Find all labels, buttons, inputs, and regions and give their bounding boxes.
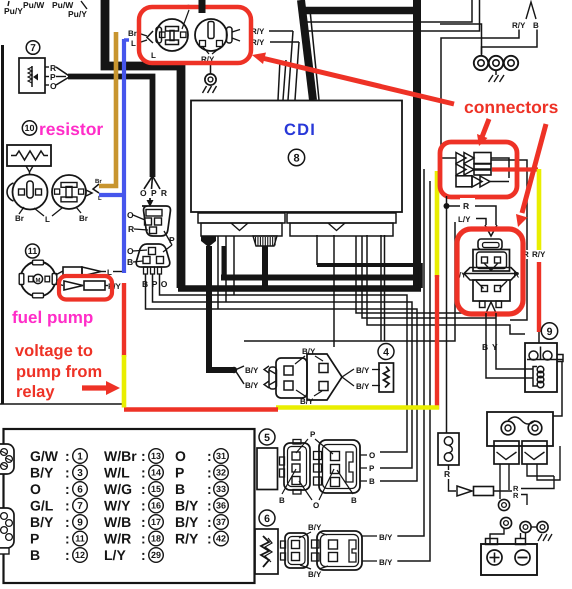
svg-text:B/Y: B/Y [379,558,393,567]
svg-text:O: O [127,246,134,256]
comp5 housing right [319,440,360,493]
ground lead [495,71,497,76]
svg-text:3: 3 [77,468,83,479]
connector lower trapezoid [136,244,170,267]
wire L/Y long [244,222,455,341]
svg-text:36: 36 [216,501,226,511]
fuse element [444,437,452,445]
svg-text:17: 17 [151,517,161,527]
svg-text:Br: Br [128,29,137,38]
svg-text:6: 6 [77,485,83,496]
red diagonal arrow to box A [262,58,454,104]
ground symbol [489,75,494,82]
label P with lead [164,231,172,245]
svg-text:M: M [36,277,41,284]
ground lead [210,63,212,74]
U7 connector fork [56,67,70,85]
wire thin horizontal above pump-relay line [0,403,124,405]
battery terminal left [486,539,498,545]
svg-text:R/Y: R/Y [532,250,546,259]
circled 8 [288,149,304,165]
comp5 mating teeth [314,452,322,460]
svg-text:relay: relay [16,383,55,401]
wire red vertical right [537,262,541,332]
wire CDI pair to LY junction [380,235,382,341]
svg-text::: : [65,547,70,563]
wire yellow vertical pump [122,355,127,408]
svg-text:B/Y: B/Y [175,514,199,530]
battery terminal right [516,539,526,545]
wire L/Y to relay [476,219,486,226]
red diagonal arrow to box C [522,124,546,213]
wire B to rings [482,30,538,56]
label P right [360,467,367,469]
comp6 element box [255,529,278,574]
wire R vertical to fuse [446,196,448,433]
wire thick vertical right of CDI [413,0,421,288]
svg-text::: : [141,531,146,547]
connector upper trapezoid [142,206,170,236]
fork to comp4 [342,369,354,377]
svg-text::: : [65,481,70,497]
fuel pump motor circle [21,262,56,297]
component 6 circled 6 [259,510,275,526]
svg-text:B: B [482,342,488,352]
ground ring terminal [205,74,216,85]
svg-text::: : [141,547,146,563]
svg-text:Pu/Y: Pu/Y [68,9,87,19]
wire thick CDI pin down-left [209,246,235,370]
ground symbol [203,86,207,93]
left page border line [1,45,4,404]
svg-text:Pu/W: Pu/W [23,0,45,10]
svg-text:W/L: W/L [104,465,130,481]
svg-text:O P R: O P R [140,188,168,198]
svg-text:W/R: W/R [104,531,131,547]
component R10 circled 10 [22,121,36,135]
battery box [481,544,537,575]
wire B long to comp5 [146,274,418,481]
coil wires down left [499,464,501,499]
wire ring b down [525,533,527,539]
svg-text:B/Y: B/Y [175,498,199,514]
svg-text:15: 15 [151,484,161,494]
CDI unit U8 box [191,101,402,213]
R10 lead down [26,166,33,172]
svg-text:B: B [351,496,357,505]
svg-text:pump from: pump from [16,363,102,381]
red arrow to wire [82,385,107,390]
wire fork Br L to connector [138,33,147,36]
svg-text:5: 5 [264,432,270,444]
ring terminal 2 [489,56,503,70]
connector circle I-beam [156,19,188,51]
bullet right exits [491,158,509,178]
svg-text::: : [65,514,70,530]
label Br with lead [76,207,81,213]
connector housing right [307,354,342,400]
relay K9 box [525,343,557,392]
svg-text:B/Y: B/Y [302,347,316,356]
wire R continue [510,259,527,320]
ignition coil box [487,412,553,446]
comp5 housing left [284,443,310,490]
wire thick bundle from top to CDI area [105,0,181,288]
svg-text:L/Y: L/Y [104,547,126,563]
relay flange [464,268,517,281]
wire thin top loop b [306,0,480,31]
svg-text:R: R [444,469,450,479]
svg-text:P: P [310,430,316,439]
svg-text::: : [65,448,70,464]
svg-text:9: 9 [547,326,553,338]
svg-text:Br: Br [79,214,88,223]
svg-text::: : [207,481,212,497]
svg-text:R: R [128,224,134,234]
svg-text:R: R [514,271,520,280]
svg-text:fuel pump: fuel pump [12,308,93,327]
CDI left strip pin wires [217,236,219,309]
bullet connector L [63,267,82,276]
coil primary right [522,441,547,464]
tick mark [8,1,9,6]
svg-text::: : [207,465,212,481]
svg-text:/Y: /Y [459,271,466,280]
svg-text::: : [141,481,146,497]
svg-text:O: O [313,501,319,510]
svg-text:B/Y: B/Y [379,533,393,542]
svg-text::: : [65,498,70,514]
comp6 housing left [285,533,308,568]
wire thick junction leads [235,366,244,370]
svg-text:18: 18 [151,534,161,544]
wire thick bus mid [221,275,417,281]
wire ring stub [440,24,482,54]
wire battery to ring [490,529,504,545]
wire R/Y right upper [269,30,293,32]
junction dot R [444,203,450,209]
svg-text:R/Y: R/Y [512,21,526,30]
svg-text:B: B [279,496,285,505]
connector circle right [52,175,86,209]
ring connector b [500,517,511,528]
wire R/Y to rings [441,30,519,159]
bullet row1 [456,153,466,164]
svg-text::: : [65,531,70,547]
svg-text:42: 42 [216,534,226,544]
wire CDI stub to bus [316,235,318,265]
wire red vertical pump [122,283,126,357]
resistor R10 zigzag [11,151,48,160]
svg-text:11: 11 [28,246,38,256]
wire relay9 to coils [553,362,562,417]
wire comp6 lower from bullets [398,181,430,561]
ring connector c [520,521,531,532]
coil primary left [494,441,519,464]
svg-text:12: 12 [75,550,85,560]
svg-text::: : [65,465,70,481]
svg-text:7: 7 [77,501,83,512]
wire red horizontal [124,407,278,411]
svg-text:B/Y: B/Y [356,366,370,375]
relay K9 contacts [529,351,538,360]
annotation red box relay [457,229,523,314]
connector circle left [13,175,48,210]
svg-text:resistor: resistor [39,119,103,139]
connector housing left [276,358,307,398]
label R [460,198,475,207]
svg-text:W/Y: W/Y [104,498,131,514]
CDI connector strip right [287,213,396,223]
wire fork up [526,2,536,19]
svg-text::: : [141,514,146,530]
svg-text:14: 14 [151,468,161,478]
comp6 housing right [317,531,362,570]
ring terminal 3 [504,56,518,70]
bullet row2 [456,164,466,175]
comp5 blank box [257,448,278,490]
resistor R10 box [7,145,51,166]
coil wires down right [527,464,554,476]
wire R to coil rings [521,495,527,506]
label B/Y right [362,535,377,537]
svg-text:B: B [369,477,375,486]
svg-text:10: 10 [24,123,34,133]
arrow down to connector [149,198,151,203]
ring connector a [498,499,509,510]
wire P long to comp5 [153,274,413,468]
ring connector d [537,521,548,532]
svg-text:B/Y: B/Y [30,465,54,481]
wire Br gold marked [99,32,116,186]
svg-text:Br: Br [15,214,24,223]
svg-text:L: L [45,215,50,224]
svg-text:G/W: G/W [30,448,59,464]
svg-text:L/Y: L/Y [458,215,471,224]
svg-text:W/Br: W/Br [104,448,137,464]
svg-text:W/B: W/B [104,514,131,530]
svg-text:33: 33 [216,484,226,494]
svg-text:R: R [513,491,519,500]
relay bottom arrow [486,302,496,313]
svg-text::: : [207,531,212,547]
wire thick hatched pin down [262,246,268,288]
wire Y from relay [496,313,533,369]
wire thick top horizontal [302,7,415,15]
svg-text:W/G: W/G [104,481,132,497]
svg-text:G/L: G/L [30,498,54,514]
svg-text:O: O [30,481,41,497]
component M11 circled 11 [26,244,40,258]
relay entry arrow [485,225,497,236]
wire CDI to BY pair [333,235,335,347]
svg-text:B/Y: B/Y [308,523,322,532]
coil ring terminals [501,421,515,435]
connector circle round-pin [195,19,227,51]
component 9 circled 9 [541,323,557,339]
legend icon lower [0,508,14,548]
relay connector upper body [473,250,510,272]
wire yellow vertical left [435,171,440,277]
wire thick short [222,246,227,277]
svg-text:11: 11 [75,534,85,544]
svg-text:29: 29 [151,550,161,560]
comp6 mating teeth [312,540,320,548]
CDI pin solid [201,236,216,247]
svg-text::: : [141,498,146,514]
annotation red box fuel pump connector [59,276,112,300]
svg-text::: : [207,498,212,514]
component U7 box [19,58,45,93]
relay connector lower body [473,280,510,301]
legend icon upper [0,444,14,474]
bullet row3 [456,176,472,187]
wire CDI to relay B [356,236,486,313]
CDI connector strip left [198,213,285,223]
wire thick bus low [178,285,421,292]
junction dot [231,367,237,373]
svg-text:B: B [30,547,40,563]
wire red vertical left [435,275,439,410]
svg-text:31: 31 [216,451,226,461]
wire CDI third relay feed [367,235,525,334]
ground under ring [538,534,542,541]
svg-text:B/Y: B/Y [308,570,322,579]
svg-text::: : [207,448,212,464]
wire yellow horizontal [276,405,439,410]
wire red marked to R/Y [492,167,538,171]
wire bus upper medium [317,265,421,288]
svg-text:B/Y: B/Y [245,366,259,375]
wire L blue marked [122,39,126,273]
svg-text:B: B [175,481,185,497]
wire entry row1 [441,157,456,159]
wire CDI to relay Y [362,236,496,318]
svg-text:O: O [50,81,57,91]
wire O long to comp5 [160,274,408,452]
svg-text:L: L [131,39,136,48]
svg-text:B/Y: B/Y [30,514,54,530]
connector fork to R/Y wires [232,30,240,33]
svg-text:voltage to: voltage to [15,342,93,360]
svg-text:9: 9 [77,518,83,529]
wire thin into CDI [288,31,293,100]
svg-text::: : [141,448,146,464]
svg-text:R/Y: R/Y [175,531,199,547]
wire thick bundle into CDI [301,0,313,100]
component 5 circled 5 [259,429,275,445]
label B right [360,480,367,482]
bullet connector [457,486,472,496]
label B/Y right [362,560,377,562]
svg-text:B: B [533,21,539,30]
svg-text:O: O [127,210,134,220]
svg-text:B/Y: B/Y [300,397,314,406]
svg-text:37: 37 [216,517,226,527]
wire B from relay [486,313,533,378]
svg-text:1: 1 [77,452,83,463]
component D4 box [379,363,394,392]
svg-text:4: 4 [383,346,389,358]
legend box [4,429,255,583]
component 4 circled 4 [378,344,394,360]
svg-text:32: 32 [216,468,226,478]
component U7 circled 7 [26,41,40,55]
svg-text:P: P [30,531,39,547]
wire R down right side [491,160,527,250]
label L with leads [34,208,44,216]
wire R to coil right [521,476,554,489]
svg-text:P: P [175,465,184,481]
svg-text:B/Y: B/Y [356,382,370,391]
wire thin top loop a [306,0,472,22]
label O right [360,454,367,456]
svg-text:L: L [151,51,156,60]
svg-text:13: 13 [151,451,161,461]
U7 pin R [45,66,49,68]
relay K9 coil [533,367,537,387]
svg-text:P: P [169,235,175,245]
svg-text:O: O [369,451,375,460]
bullet connector P/Y [64,281,83,290]
connector fork to Br L wires [86,190,92,196]
wire thick stub top [199,0,206,13]
svg-text:CDI: CDI [284,121,316,139]
U7 inner element [31,66,33,87]
U7 pin O [45,84,49,86]
battery plus [487,550,502,565]
svg-text:7: 7 [30,43,36,54]
svg-text:8: 8 [293,152,299,164]
fuse F box [438,433,459,465]
annotation red box connectors right [440,142,517,197]
pump leads [56,271,64,275]
U7 pin P [45,76,49,78]
svg-text:16: 16 [151,501,161,511]
wire red to relay9 [538,332,540,343]
wire R to relay top [447,206,497,225]
OPR 3-way fork [144,176,153,189]
svg-text::: : [207,514,212,530]
svg-text:Y: Y [492,342,498,352]
svg-text:Pu/Y: Pu/Y [4,6,23,16]
svg-text:O: O [175,448,186,464]
CDI pin hatched [253,236,277,246]
ring terminal 1 [474,56,488,70]
wire thick from component 7 to OPR fork [68,77,153,178]
battery minus [515,550,530,565]
svg-text:6: 6 [264,513,270,525]
wire fuse to bullet [448,465,450,470]
relay connector cap [478,239,502,250]
svg-text:P: P [369,464,375,473]
tick backslash [81,1,87,9]
D4 zigzag element [384,367,390,388]
wire R/Y right lower [270,41,299,43]
svg-text:connectors: connectors [464,97,559,117]
relay prongs [480,301,486,308]
svg-text:R: R [463,201,469,211]
wire thin into CDI [310,10,319,100]
wire yellow vertical right [537,169,542,250]
red short arrow to box B [482,119,489,137]
svg-text:B/Y: B/Y [245,381,259,390]
wire thin into CDI [295,42,299,100]
svg-text::: : [141,465,146,481]
annotation red box connectors top [139,7,251,63]
wire comp6 upper from bullets [398,169,424,536]
svg-text:B: B [127,257,133,267]
